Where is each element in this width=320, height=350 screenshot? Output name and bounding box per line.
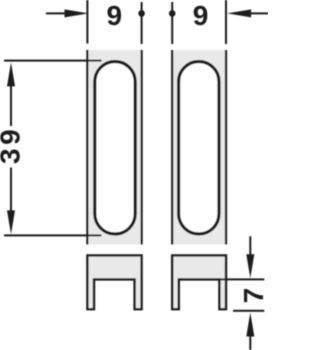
7 dim: lower leader line xyxy=(249,335,251,350)
7 dim: lower arrowhead (pointing up) xyxy=(246,313,254,337)
plate P1 body (left profile elevation, gray fill) xyxy=(87,50,141,244)
top dim: left leader line xyxy=(46,12,66,14)
top dim: extension line through D2 xyxy=(171,2,173,44)
top dim: left arrowhead xyxy=(65,9,89,17)
39 dim: dimension line upper segment xyxy=(10,84,12,126)
top dim: right extension line xyxy=(225,0,227,44)
plate P1 right edge xyxy=(141,50,143,244)
slot S1 (rounded finger slot of left plate) xyxy=(95,62,135,234)
svg-text:9: 9 xyxy=(107,0,123,31)
slot S2 (rounded finger slot of right plate) xyxy=(179,62,219,234)
svg-text:9: 9 xyxy=(193,0,209,31)
plate P2 left edge xyxy=(171,50,173,244)
39 dim: dimension line lower segment xyxy=(10,168,12,213)
7 dim: upper leader line xyxy=(249,236,251,256)
7 dim: bottom extension line xyxy=(233,310,264,312)
plate P2 right edge xyxy=(225,50,227,244)
top dim: dot D1 xyxy=(138,10,145,17)
top dim: extension line through D1 xyxy=(141,2,143,44)
39 dim: top extension line xyxy=(4,60,102,62)
top dim: right leader line xyxy=(249,12,268,14)
U-channel U2 (right cross-section) xyxy=(172,255,226,309)
top dim: left extension line xyxy=(86,0,88,44)
7 dim: top extension line xyxy=(219,278,264,280)
top dim: dot D2 xyxy=(169,10,176,17)
plate P1 left edge xyxy=(86,50,88,244)
39 dim: lower arrowhead xyxy=(7,210,15,234)
39 dim: upper arrowhead xyxy=(7,62,15,86)
39 dim: bottom extension line xyxy=(4,234,102,236)
svg-text:39: 39 xyxy=(0,126,26,164)
U-channel U1 (left cross-section) xyxy=(87,255,141,309)
7 dim: upper arrowhead (pointing down) xyxy=(246,254,254,278)
top dim: right arrowhead xyxy=(227,9,251,17)
plate P2 body (right profile elevation, gray fill) xyxy=(172,50,226,244)
svg-text:7: 7 xyxy=(238,288,268,304)
